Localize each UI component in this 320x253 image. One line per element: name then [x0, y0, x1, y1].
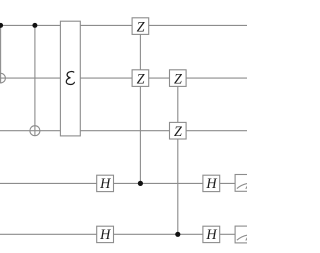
label script E — [66, 72, 74, 85]
gate H2 on q4 — [97, 226, 114, 243]
svg-text:Z: Z — [174, 72, 183, 88]
gate Z2 on q1 — [132, 70, 149, 88]
control dot on q4 (chain 2) — [175, 232, 180, 237]
meter M1 on q3 — [235, 175, 259, 192]
qubit wire q4 — [0, 233, 247, 235]
svg-text:H: H — [205, 176, 217, 192]
gate H3 on q3 — [203, 175, 220, 192]
CZ chain 1 vertical wire (Z1-Z2-dot) — [139, 26, 141, 183]
qubit wire q0 — [0, 24, 247, 26]
svg-text:H: H — [99, 227, 111, 243]
gate Z1 on q0 — [132, 18, 149, 36]
qubit wire q2 — [0, 130, 247, 132]
gate Z4 on q2 — [170, 122, 187, 140]
qubit wire q1 — [0, 77, 247, 79]
qubit wire q3 — [0, 182, 247, 184]
svg-text:Z: Z — [137, 20, 146, 36]
meter M2 on q4 — [235, 226, 259, 243]
CNOT 2 vertical wire — [34, 25, 36, 135]
CNOT 1 control dot on q0 — [0, 23, 3, 28]
svg-text:Z: Z — [174, 124, 183, 140]
gate H1 on q3 — [97, 175, 114, 192]
control dot on q3 (chain 1) — [138, 181, 143, 186]
svg-text:H: H — [205, 227, 217, 243]
CNOT 1 vertical wire — [0, 25, 2, 83]
CNOT 2 target on q2 — [30, 126, 40, 136]
channel box E — [60, 21, 80, 136]
svg-text:Z: Z — [137, 72, 146, 88]
gate Z3 on q1 — [170, 70, 187, 88]
svg-text:H: H — [99, 176, 111, 192]
gate H4 on q4 — [203, 226, 220, 243]
CNOT 2 control dot on q0 — [32, 23, 37, 28]
CNOT 1 target on q1 — [0, 73, 5, 83]
CZ chain 2 vertical wire (Z3-Z4-dot) — [177, 78, 179, 234]
